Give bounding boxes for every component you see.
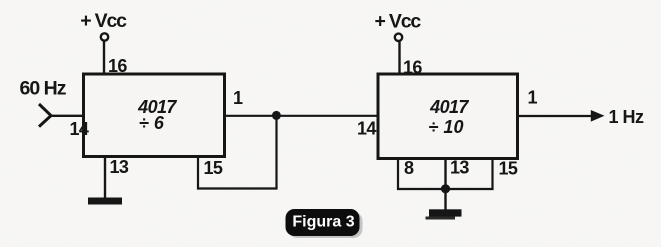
svg-text:1: 1: [528, 88, 538, 108]
svg-text:+ Vcc: + Vcc: [375, 11, 422, 33]
svg-text:13: 13: [450, 158, 469, 178]
svg-text:4017: 4017: [429, 97, 469, 117]
svg-text:60 Hz: 60 Hz: [20, 78, 67, 100]
svg-text:1 Hz: 1 Hz: [609, 107, 645, 127]
svg-text:16: 16: [108, 56, 127, 76]
svg-text:÷ 10: ÷ 10: [429, 117, 464, 137]
svg-text:+ Vcc: + Vcc: [80, 10, 127, 32]
svg-text:14: 14: [70, 119, 89, 139]
svg-text:Figura 3: Figura 3: [292, 214, 354, 231]
svg-text:15: 15: [204, 158, 223, 178]
svg-text:15: 15: [499, 159, 518, 179]
svg-text:13: 13: [110, 157, 129, 177]
svg-text:8: 8: [404, 158, 414, 178]
svg-text:1: 1: [233, 88, 243, 108]
svg-text:16: 16: [403, 58, 422, 78]
svg-text:14: 14: [357, 119, 376, 139]
svg-text:÷ 6: ÷ 6: [139, 113, 165, 133]
